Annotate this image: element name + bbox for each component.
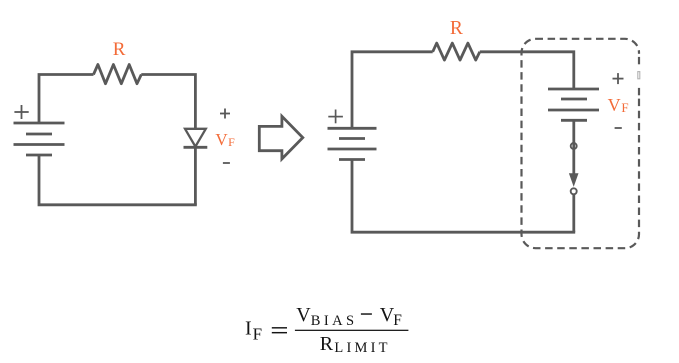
diode + polarity sign [220,109,230,119]
formula equals sign [272,327,287,328]
svg-text:R: R [450,18,463,39]
battery V (left circuit voltage source) [14,123,65,155]
svg-text:LIMIT: LIMIT [334,340,390,356]
wire: left circuit top-right segment and right vertical down to diode [141,75,195,130]
wire: left circuit bottom segment [39,155,197,205]
cursor artifact (light dash) [638,72,640,79]
svg-text:F: F [228,135,235,149]
battery + polarity sign (right circuit) [328,110,343,124]
switch contact node (upper circle) [571,143,577,149]
battery VF (modeled diode drop) [548,89,599,120]
wire: from switch down to bottom wire [572,195,575,233]
svg-text:V: V [215,130,228,149]
diode D (LED) anode triangle [185,129,206,147]
svg-text:I: I [245,318,252,340]
battery + polarity sign (left circuit) [14,105,28,119]
wire: right circuit top-right segment [480,52,574,89]
arrow (transform indicator) [259,116,303,159]
svg-text:BIAS: BIAS [311,313,358,329]
svg-text:F: F [393,312,402,329]
svg-text:F: F [253,324,262,343]
svg-text:V: V [296,304,311,326]
svg-text:R: R [320,333,334,355]
wire: right circuit top-left segment and left vertical [352,52,433,129]
resistor R (left circuit) [94,65,142,84]
formula minus sign [361,313,372,314]
wire: left circuit top-left segment and left vertical [39,75,94,124]
wire: right circuit left vertical below battery and bottom segment [352,160,575,233]
dashed enclosure box: right-edge dash segment [638,88,640,95]
VF - polarity sign [615,127,622,129]
formula fraction bar [295,330,409,331]
svg-text:V: V [608,95,621,115]
diode - polarity sign [223,162,230,164]
switch arrowhead [569,173,579,187]
switch contact node (lower circle) [571,188,577,194]
dashed enclosure box (diode model region) [522,39,640,248]
svg-text:R: R [113,39,126,60]
wire: from diode down to bottom-right corner [194,147,197,205]
wire: from VF battery through upper contact down to arrow [572,120,575,176]
VF + polarity sign [613,73,624,84]
svg-text:F: F [621,100,628,115]
dashed enclosure box: right-edge dash segment [638,57,640,64]
battery VBIAS (right circuit voltage source) [328,128,377,159]
diode D cathode bar [184,146,208,149]
dashed enclosure box: white patch over right edge [636,54,643,98]
resistor R (right circuit) [433,43,480,60]
